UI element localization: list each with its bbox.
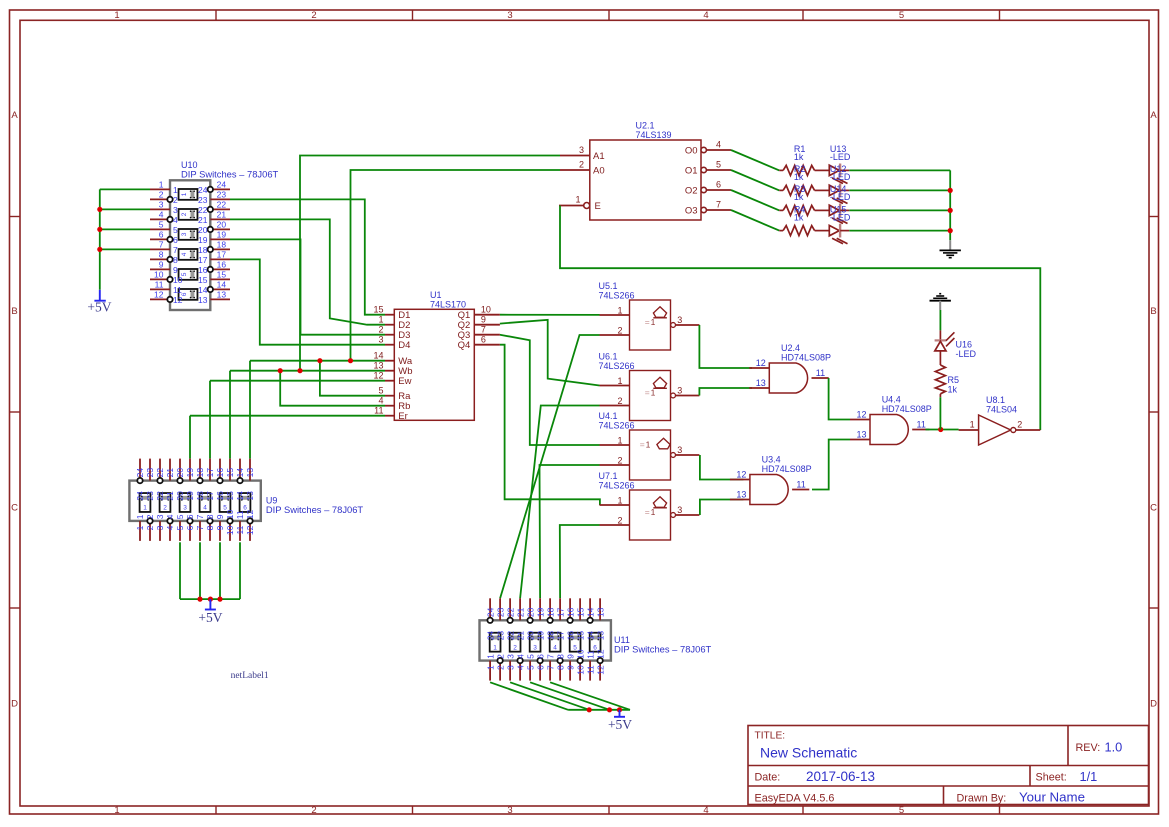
svg-text:13: 13 [245, 468, 255, 478]
svg-text:13: 13 [217, 289, 227, 299]
xnor gate U5.1 [600, 300, 700, 350]
svg-text:17: 17 [555, 631, 565, 641]
svg-text:=: = [640, 439, 645, 449]
svg-text:2: 2 [617, 326, 622, 336]
svg-text:19: 19 [535, 631, 545, 641]
svg-text:18: 18 [545, 631, 555, 641]
resistor R4 1k [779, 226, 829, 236]
dip switch U11 switch 4 [550, 633, 561, 652]
svg-text:A1: A1 [593, 151, 605, 162]
wire U5.1 out to U2.4 pin12 [699, 325, 752, 368]
wire Ew net [210, 380, 385, 382]
wire U9 +5V rail [180, 598, 240, 600]
svg-text:O0: O0 [685, 145, 698, 156]
wire A0 net [351, 170, 561, 361]
dip switch U11 switch 5 [570, 633, 581, 652]
svg-text:74LS04: 74LS04 [986, 404, 1017, 414]
svg-text:17: 17 [217, 249, 227, 259]
wire U4.4 out to U8.1 in [926, 429, 959, 431]
wire U11 +5V rail [568, 709, 630, 711]
svg-text:6: 6 [535, 654, 545, 659]
wire LED U14 to ground rail [849, 209, 950, 211]
svg-text:18: 18 [195, 468, 205, 478]
svg-text:5: 5 [175, 514, 185, 519]
dip switch U9 switch 6 [240, 493, 251, 512]
svg-text:1: 1 [617, 496, 622, 506]
dip switch U11 switch 6 [590, 633, 601, 652]
svg-text:2: 2 [145, 525, 155, 530]
wire U10.1 to +5V rail [100, 188, 150, 190]
svg-text:3: 3 [533, 644, 537, 651]
junction Wa-A0 [348, 358, 353, 363]
svg-text:2: 2 [617, 516, 622, 526]
svg-text:11: 11 [235, 510, 245, 519]
dip switch U10 switch 1 [179, 189, 198, 200]
svg-text:O2: O2 [685, 185, 698, 196]
svg-text:12: 12 [736, 470, 746, 480]
wire U10.21 to D2 [230, 219, 385, 324]
U2.1 pin E [559, 195, 601, 212]
svg-text:D: D [11, 699, 18, 710]
dip switch U9 pin stubs [140, 459, 250, 541]
svg-text:1k: 1k [794, 192, 804, 202]
wire Q4 to U7.1 pin1 [500, 345, 600, 505]
svg-text:18: 18 [545, 607, 555, 617]
svg-text:4: 4 [173, 215, 178, 225]
wire U11 bottom pin1 [490, 682, 568, 710]
svg-text:18: 18 [198, 245, 208, 255]
svg-text:4: 4 [181, 252, 188, 256]
svg-text:2: 2 [163, 505, 167, 512]
svg-text:19: 19 [198, 235, 208, 245]
dip switch U10 pin numbers [154, 179, 226, 304]
svg-text:23: 23 [217, 189, 227, 199]
svg-text:4: 4 [515, 665, 525, 670]
svg-text:2: 2 [495, 665, 505, 670]
wire U10.3 [100, 208, 150, 210]
svg-text:1: 1 [617, 306, 622, 316]
svg-text:=: = [645, 507, 650, 517]
+5V flag left [94, 290, 105, 301]
svg-text:23: 23 [145, 491, 155, 501]
wire LED U15 to ground rail [849, 230, 950, 232]
wire E to U8.1 output [560, 206, 1040, 431]
svg-text:-LED: -LED [830, 152, 851, 162]
svg-text:3: 3 [677, 386, 682, 396]
svg-text:3: 3 [155, 525, 165, 530]
svg-text:4: 4 [378, 396, 383, 406]
LED U16 -LED [935, 330, 955, 365]
svg-text:-LED: -LED [830, 172, 851, 182]
svg-text:20: 20 [175, 468, 185, 478]
svg-text:9: 9 [173, 265, 178, 275]
dip switch U10 switch 2 [179, 209, 198, 220]
svg-text:13: 13 [198, 295, 208, 305]
svg-text:2: 2 [311, 805, 316, 816]
svg-text:10: 10 [575, 649, 585, 659]
svg-text:10: 10 [173, 275, 183, 285]
svg-text:5: 5 [716, 159, 721, 169]
dip switch U11 pin stubs [490, 598, 600, 680]
svg-text:15: 15 [575, 631, 585, 641]
wire U10.7 [100, 248, 150, 250]
and gate U3.4 [730, 470, 809, 505]
svg-text:20: 20 [198, 225, 208, 235]
svg-text:13: 13 [595, 607, 605, 617]
dip switch U10 switch 6 [179, 289, 198, 300]
svg-text:New Schematic: New Schematic [760, 745, 857, 761]
R3 label [794, 184, 806, 202]
svg-text:13: 13 [373, 361, 383, 371]
svg-text:5: 5 [899, 805, 904, 816]
svg-text:1.0: 1.0 [1105, 740, 1123, 755]
svg-text:12: 12 [245, 525, 255, 535]
U15 label [830, 204, 851, 222]
svg-text:Date:: Date: [755, 772, 781, 784]
svg-text:1: 1 [143, 505, 147, 512]
wire Wb to U9.15 [229, 371, 231, 459]
svg-text:15: 15 [217, 269, 227, 279]
wire Ew to U9.17 [209, 381, 211, 459]
svg-text:14: 14 [217, 279, 227, 289]
svg-text:21: 21 [198, 215, 208, 225]
svg-text:11: 11 [235, 525, 245, 534]
svg-text:Er: Er [398, 411, 408, 422]
svg-text:15: 15 [373, 305, 383, 315]
svg-text:20: 20 [175, 491, 185, 501]
wire U2.4 out to U4.4 pin12 [829, 378, 850, 420]
svg-text:3: 3 [677, 445, 682, 455]
dip switch U11 pin bubbles [487, 618, 602, 664]
dip switch U9 body [129, 481, 260, 521]
svg-text:1: 1 [181, 192, 188, 196]
svg-text:15: 15 [225, 468, 235, 478]
dip switch U9 switch 3 [180, 493, 191, 512]
svg-text:22: 22 [505, 607, 515, 617]
svg-text:1/1: 1/1 [1080, 769, 1098, 784]
svg-text:HD74LS08P: HD74LS08P [762, 464, 812, 474]
svg-text:3: 3 [677, 505, 682, 515]
svg-text:Q4: Q4 [458, 340, 471, 351]
ground symbol above U16 [930, 294, 951, 310]
svg-text:8: 8 [173, 255, 178, 265]
svg-text:5: 5 [899, 10, 904, 21]
svg-text:23: 23 [495, 631, 505, 641]
svg-text:21: 21 [165, 468, 175, 478]
svg-text:14: 14 [373, 351, 383, 361]
svg-text:3: 3 [505, 665, 515, 670]
svg-text:5: 5 [525, 654, 535, 659]
svg-text:12: 12 [595, 665, 605, 675]
svg-text:18: 18 [217, 239, 227, 249]
wire U3.4 out to U4.4 pin13 [812, 440, 850, 490]
svg-text:C: C [11, 503, 18, 514]
svg-text:12: 12 [595, 649, 605, 659]
svg-text:12: 12 [756, 358, 766, 368]
svg-text:+5V: +5V [87, 299, 111, 314]
svg-text:13: 13 [595, 631, 605, 641]
R4 label [794, 204, 806, 222]
svg-text:4: 4 [165, 525, 175, 530]
svg-text:21: 21 [515, 631, 525, 641]
and gate U4.4 [850, 410, 929, 445]
svg-text:20: 20 [525, 631, 535, 641]
svg-text:14: 14 [585, 631, 595, 641]
svg-text:1: 1 [378, 315, 383, 325]
dip switch U10 switch 3 [179, 229, 198, 240]
svg-text:21: 21 [515, 607, 525, 617]
dip switch U9 switch 1 [140, 493, 151, 512]
svg-text:11: 11 [796, 480, 805, 490]
wire Wa to U9.13 [249, 361, 251, 459]
svg-text:1: 1 [651, 317, 656, 327]
dip switch U10 pin bubbles [167, 187, 213, 302]
and gate U2.4 [749, 358, 828, 393]
svg-text:3: 3 [183, 505, 187, 512]
svg-text:24: 24 [198, 185, 208, 195]
svg-text:13: 13 [736, 490, 746, 500]
svg-text:18: 18 [195, 491, 205, 501]
U1 left pins [373, 305, 412, 422]
svg-text:7: 7 [173, 245, 178, 255]
svg-text:4: 4 [203, 505, 207, 512]
svg-text:2: 2 [378, 325, 383, 335]
dip switch U9 switch 5 [220, 493, 231, 512]
svg-text:REV:: REV: [1076, 742, 1101, 754]
svg-text:4: 4 [716, 139, 721, 149]
svg-text:D4: D4 [398, 340, 410, 351]
svg-text:2: 2 [579, 160, 584, 170]
wire Wa to Ra [320, 361, 385, 396]
svg-text:15: 15 [225, 491, 235, 501]
svg-text:8: 8 [555, 654, 565, 659]
svg-text:1: 1 [135, 514, 145, 519]
junction U11 rail pin5 [607, 707, 612, 712]
svg-text:24: 24 [135, 491, 145, 501]
svg-text:20: 20 [525, 607, 535, 617]
svg-text:13: 13 [856, 430, 866, 440]
svg-text:1k: 1k [948, 385, 958, 395]
svg-text:9: 9 [565, 654, 575, 659]
svg-text:4: 4 [553, 644, 557, 651]
svg-text:6: 6 [159, 229, 164, 239]
wire R5 to junction [939, 397, 941, 429]
junction rail pin3 [97, 207, 102, 212]
svg-text:17: 17 [205, 468, 215, 478]
resistor R5 1k [935, 365, 945, 397]
wire A1 net [300, 156, 560, 371]
xnor gate U6.1 [600, 371, 700, 421]
svg-text:21: 21 [165, 491, 175, 501]
svg-text:E: E [595, 201, 601, 212]
wire U11.17 to U7.1 pin2 [560, 525, 600, 598]
wire ground to U16 [939, 310, 941, 330]
svg-text:1: 1 [114, 10, 119, 21]
svg-text:2: 2 [159, 189, 164, 199]
svg-text:3: 3 [159, 199, 164, 209]
svg-text:11: 11 [585, 665, 595, 674]
svg-text:11: 11 [374, 406, 383, 416]
junction rail pin5 [97, 227, 102, 232]
wire Q2 to U6.1 pin1 [500, 320, 600, 386]
svg-text:74LS266: 74LS266 [599, 290, 635, 300]
svg-text:7: 7 [545, 654, 555, 659]
junction U9 rail pin9 [217, 597, 222, 602]
wire O2 diagonal [731, 190, 779, 210]
dip switch U10 pin stubs [150, 189, 230, 299]
svg-text:1: 1 [651, 507, 656, 517]
svg-text:17: 17 [205, 491, 215, 501]
wire U10.19 to D3 [230, 239, 385, 334]
svg-text:11: 11 [155, 279, 164, 289]
svg-text:16: 16 [217, 259, 227, 269]
svg-text:24: 24 [485, 607, 495, 617]
svg-text:R5: R5 [948, 375, 960, 385]
svg-text:HD74LS08P: HD74LS08P [781, 352, 831, 362]
svg-text:19: 19 [185, 468, 195, 478]
svg-text:5: 5 [378, 386, 383, 396]
U16 label [956, 340, 977, 359]
svg-text:1: 1 [493, 644, 497, 651]
svg-text:2: 2 [617, 396, 622, 406]
svg-text:2017-06-13: 2017-06-13 [806, 769, 875, 784]
dip switch U9 switch 4 [200, 493, 211, 512]
svg-text:16: 16 [215, 491, 225, 501]
junction Wb-A1 [297, 368, 302, 373]
svg-text:3: 3 [505, 654, 515, 659]
svg-text:15: 15 [198, 275, 208, 285]
svg-text:5: 5 [173, 225, 178, 235]
wire U9 bottom pin7 [199, 542, 201, 599]
dip switch U11 body [480, 620, 611, 660]
svg-text:HD74LS08P: HD74LS08P [882, 404, 932, 414]
svg-text:8: 8 [159, 249, 164, 259]
U2.1 input pins A1 A0 [560, 145, 605, 176]
svg-text:DIP Switches – 78J06T: DIP Switches – 78J06T [181, 169, 279, 180]
svg-text:11: 11 [585, 650, 595, 659]
junction U9 rail +5V [208, 597, 213, 602]
svg-text:5: 5 [175, 525, 185, 530]
svg-text:16: 16 [565, 631, 575, 641]
svg-text:=: = [645, 317, 650, 327]
svg-text:6: 6 [481, 335, 486, 345]
svg-text:23: 23 [145, 468, 155, 478]
svg-text:O1: O1 [685, 165, 698, 176]
ground rail vertical [949, 170, 951, 240]
svg-text:16: 16 [565, 607, 575, 617]
wire O1 diagonal [731, 170, 779, 190]
svg-text:3: 3 [378, 335, 383, 345]
ground symbol top right [940, 240, 961, 257]
svg-text:16: 16 [198, 265, 208, 275]
svg-text:1: 1 [575, 195, 580, 205]
svg-text:14: 14 [235, 468, 245, 478]
resistor R3 1k [779, 205, 829, 215]
wire U9 bottom pin9 [219, 542, 221, 599]
junction LED row4 [948, 228, 953, 233]
junction rail pin7 [97, 247, 102, 252]
svg-text:14: 14 [235, 491, 245, 501]
R1 label [794, 144, 806, 162]
svg-text:24: 24 [217, 179, 227, 189]
wire U4.1 out to U3.4 pin12 [700, 455, 744, 480]
svg-text:74LS266: 74LS266 [599, 420, 635, 430]
wire U10.5 [100, 228, 150, 230]
svg-text:7: 7 [195, 514, 205, 519]
svg-text:19: 19 [217, 229, 227, 239]
inverter U8.1 [959, 415, 1041, 445]
svg-text:10: 10 [575, 665, 585, 675]
wire LED U13 to ground rail [849, 169, 950, 171]
wire Wb to Rb [280, 371, 385, 406]
svg-text:9: 9 [481, 315, 486, 325]
wire U6.1 out to U2.4 pin13 [699, 388, 752, 396]
wire O0 diagonal [731, 150, 779, 170]
svg-text:7: 7 [159, 239, 164, 249]
svg-text:11: 11 [173, 285, 182, 295]
svg-text:2: 2 [513, 644, 517, 651]
+5V flag U9 [205, 599, 216, 609]
wire Q1 to U5.1 pin1 [500, 314, 600, 316]
dip switch U11 pin numbers [485, 607, 605, 674]
svg-text:2: 2 [181, 212, 188, 216]
wire U9 bottom pin5 [179, 542, 181, 599]
svg-text:1: 1 [485, 665, 495, 670]
resistor R1 1k [779, 165, 829, 175]
svg-text:2: 2 [495, 654, 505, 659]
svg-text:D: D [1150, 699, 1157, 710]
svg-text:1: 1 [646, 439, 651, 449]
svg-text:O3: O3 [685, 205, 698, 216]
wire Wb net [230, 370, 385, 372]
svg-text:7: 7 [481, 325, 486, 335]
svg-text:2: 2 [1017, 420, 1022, 430]
dip switch U11 switch 2 [510, 633, 521, 652]
svg-text:3: 3 [677, 315, 682, 325]
U1 right pins [458, 305, 500, 351]
svg-text:Sheet:: Sheet: [1036, 772, 1067, 784]
svg-text:7: 7 [195, 525, 205, 530]
svg-text:4: 4 [703, 805, 708, 816]
svg-text:4: 4 [703, 10, 708, 21]
svg-text:12: 12 [245, 509, 255, 519]
svg-text:5: 5 [159, 219, 164, 229]
svg-text:11: 11 [816, 368, 825, 378]
LED U13 -LED [829, 164, 849, 184]
dip switch U9 switch 2 [160, 493, 171, 512]
junction LED row3 [948, 208, 953, 213]
svg-text:6: 6 [173, 235, 178, 245]
svg-text:DIP Switches – 78J06T: DIP Switches – 78J06T [266, 504, 364, 515]
svg-text:15: 15 [575, 607, 585, 617]
svg-text:3: 3 [181, 232, 188, 236]
junction U11 rail +5V [617, 707, 622, 712]
svg-text:4: 4 [165, 514, 175, 519]
svg-text:24: 24 [135, 468, 145, 478]
svg-text:3: 3 [507, 805, 512, 816]
svg-text:Your Name: Your Name [1019, 790, 1085, 805]
svg-text:DIP Switches – 78J06T: DIP Switches – 78J06T [614, 643, 712, 654]
svg-text:7: 7 [545, 665, 555, 670]
junction Wa-Ra [317, 358, 322, 363]
wire O3 diagonal [731, 210, 779, 231]
svg-text:-LED: -LED [830, 192, 851, 202]
dip switch U10 switch 5 [179, 269, 198, 280]
svg-text:12: 12 [856, 410, 866, 420]
R2 label [794, 164, 806, 182]
svg-text:9: 9 [215, 525, 225, 530]
resistor R2 1k [779, 185, 829, 195]
